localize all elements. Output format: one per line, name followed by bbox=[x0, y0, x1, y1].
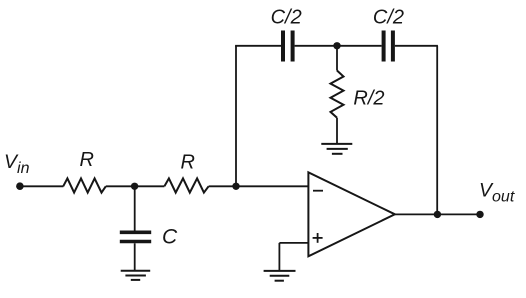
ground at op-amp + bbox=[264, 270, 296, 272]
ground under C bbox=[121, 270, 151, 272]
node output junction dot bbox=[434, 211, 441, 218]
wire R1 to node A bbox=[106, 185, 165, 187]
wire R2 to op-amp inverting input bbox=[209, 185, 309, 187]
resistor R2 bbox=[164, 178, 208, 192]
wire node C to C/2 second bbox=[337, 45, 382, 47]
resistor R/2 bbox=[331, 71, 344, 118]
svg-text:R/2: R/2 bbox=[353, 87, 384, 109]
wire R/2 to ground bbox=[336, 118, 338, 144]
resistor R1 bbox=[63, 178, 106, 192]
node A junction dot bbox=[131, 183, 138, 190]
wire Vin to R1 bbox=[20, 185, 64, 187]
op-amp plus symbol bbox=[313, 237, 323, 239]
node B junction dot bbox=[232, 183, 239, 190]
wire between C/2 first and node C bbox=[295, 45, 337, 47]
wire node B up to top rail bbox=[235, 46, 237, 187]
wire node C to R/2 bbox=[336, 46, 338, 71]
node C junction dot bbox=[333, 42, 340, 49]
svg-text:C/2: C/2 bbox=[271, 7, 302, 29]
capacitor C/2 second bbox=[382, 31, 386, 62]
wire + input down to ground bbox=[278, 243, 280, 271]
wire op-amp output to Vout bbox=[395, 213, 480, 215]
svg-text:C: C bbox=[162, 225, 178, 248]
capacitor C/2 first bbox=[281, 31, 285, 62]
svg-text:R: R bbox=[181, 151, 195, 173]
wire op-amp + input bbox=[279, 242, 308, 244]
svg-text:C/2: C/2 bbox=[373, 7, 404, 29]
op-amp U1 triangle bbox=[308, 172, 395, 256]
wire node A down to C bbox=[134, 186, 136, 230]
capacitor C bbox=[120, 231, 151, 235]
wire C to ground bbox=[134, 243, 136, 270]
op-amp minus symbol bbox=[313, 190, 323, 192]
ground under R/2 bbox=[321, 143, 352, 145]
node Vout terminal dot bbox=[476, 211, 483, 218]
wire top rail left segment bbox=[235, 45, 281, 47]
wire feedback right vertical bbox=[436, 46, 438, 215]
node Vin terminal dot bbox=[16, 182, 24, 190]
svg-text:R: R bbox=[80, 149, 94, 171]
wire top rail right segment bbox=[395, 45, 438, 47]
